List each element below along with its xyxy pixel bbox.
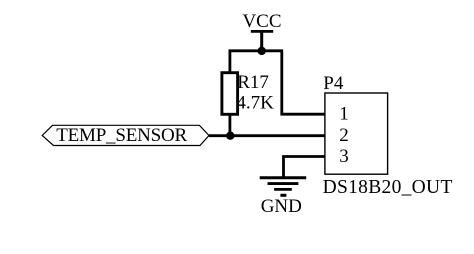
svg-text:VCC: VCC — [242, 11, 281, 32]
svg-text:R17: R17 — [237, 72, 269, 93]
svg-text:DS18B20_OUT: DS18B20_OUT — [323, 177, 453, 198]
ground bar 3 — [274, 188, 292, 191]
wire TEMP_SENSOR to pin 2 — [209, 134, 325, 137]
connector P4 — [323, 73, 453, 198]
svg-text:P4: P4 — [323, 73, 344, 94]
svg-text:TEMP_SENSOR: TEMP_SENSOR — [56, 125, 187, 146]
ground bar 2 — [268, 182, 299, 185]
connector P4 body — [325, 93, 388, 174]
ground bar 1 — [260, 176, 307, 179]
wire VCC stem — [260, 31, 263, 52]
svg-text:2: 2 — [339, 125, 349, 146]
svg-text:GND: GND — [261, 196, 302, 217]
resistor R17 — [222, 72, 274, 114]
net label outline — [42, 125, 209, 145]
wire ground to pin 3 — [284, 157, 326, 178]
VCC rail bar — [251, 30, 273, 33]
ground bar 4 — [280, 194, 286, 197]
junction VCC node — [258, 47, 266, 55]
resistor R17 body — [222, 73, 238, 115]
svg-text:1: 1 — [339, 104, 349, 125]
junction TEMP_SENSOR node — [226, 132, 234, 140]
power symbol VCC — [242, 11, 281, 52]
svg-text:4.7K: 4.7K — [236, 92, 274, 113]
wire VCC rail from resistor top to connector pin 1 — [230, 51, 325, 114]
wire resistor bottom — [228, 114, 231, 136]
svg-text:3: 3 — [339, 146, 349, 167]
net label TEMP_SENSOR — [42, 125, 209, 146]
ground — [260, 178, 307, 217]
